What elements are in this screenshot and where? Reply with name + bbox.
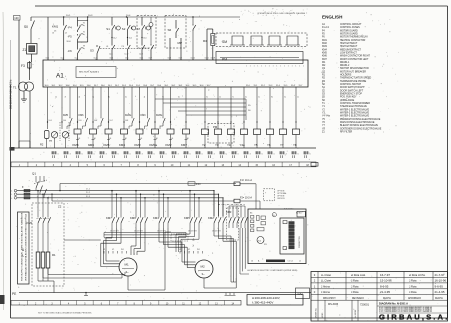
svg-text:A1: A1 — [56, 73, 64, 80]
svg-text:30-0: 30-0 — [101, 85, 105, 87]
svg-text:KM3o: KM3o — [156, 114, 163, 117]
svg-text:1: 1 — [303, 65, 304, 67]
svg-text:3: 3 — [142, 153, 143, 155]
svg-text:30-7: 30-7 — [150, 85, 154, 87]
svg-text:J.Alsina: J.Alsina — [321, 291, 330, 294]
A1 inner label box — [76, 67, 116, 78]
contactor coil KM6 — [90, 129, 97, 134]
svg-text:0: 0 — [202, 153, 203, 155]
svg-text:15-10-96: 15-10-96 — [380, 279, 392, 283]
svg-text:1: 1 — [284, 65, 285, 67]
svg-text:10-8: 10-8 — [125, 120, 128, 122]
svg-text:CONTROL FUSES: CONTROL FUSES — [340, 27, 360, 29]
svg-text:LOCATION OF ELECTRIC COMPONENT: LOCATION OF ELECTRIC COMPONENTS (UPPER V… — [247, 269, 298, 272]
svg-text:KM5: KM5 — [63, 114, 69, 117]
svg-text:W1: W1 — [197, 249, 200, 251]
svg-text:KM2: KM2 — [322, 43, 327, 45]
svg-text:L1: L1 — [299, 261, 301, 263]
svg-text:30-4: 30-4 — [129, 85, 133, 87]
wire drop to A1 pin 1 — [47, 17, 49, 60]
return bus bottom of control section — [11, 147, 316, 149]
motor M2 wiring bundle from KM2 — [213, 228, 215, 236]
svg-text:PE: PE — [12, 292, 16, 296]
wire vertical supply left — [18, 20, 20, 82]
svg-text:3: 3 — [214, 153, 215, 155]
svg-text:30-5: 30-5 — [80, 85, 84, 87]
svg-text:S2: S2 — [122, 27, 126, 31]
svg-text:30-0: 30-0 — [157, 85, 161, 87]
svg-text:1: 1 — [254, 65, 255, 67]
svg-text:1: 1 — [299, 65, 300, 67]
drain motor leads — [54, 138, 56, 148]
svg-text:10-3: 10-3 — [94, 58, 97, 60]
supply note box vertical — [18, 212, 30, 284]
terminal mark bottom left — [10, 147, 15, 151]
svg-text:31-5: 31-5 — [284, 85, 288, 87]
svg-text:10-7: 10-7 — [110, 120, 113, 122]
junction dots supply taps — [37, 190, 39, 192]
svg-text:STEAM ELECTROVALVE: STEAM ELECTROVALVE — [340, 105, 367, 108]
svg-text:30-6: 30-6 — [87, 85, 91, 87]
cam pulse 3 — [269, 36, 280, 45]
wire R3 top — [207, 28, 213, 30]
svg-text:Q1: Q1 — [32, 172, 36, 176]
svg-text:J.Alsina: J.Alsina — [321, 285, 330, 288]
svg-text:KM6: KM6 — [88, 143, 94, 147]
svg-text:W1: W1 — [121, 249, 124, 251]
motor M1 — [119, 258, 137, 276]
svg-text:10-4: 10-4 — [63, 120, 66, 122]
svg-text:31-2: 31-2 — [261, 85, 265, 87]
contactor coil KM4 — [121, 129, 128, 134]
wire transformer secondary down — [23, 91, 25, 99]
motor M2 — [195, 260, 213, 278]
supply lines L1 L2 L3 — [17, 190, 214, 192]
wire control bus top — [31, 16, 240, 18]
svg-text:1: 1 — [295, 65, 296, 67]
svg-text:LL.Clotet: LL.Clotet — [321, 280, 331, 283]
svg-text:10-1: 10-1 — [61, 58, 64, 60]
svg-text:14: 14 — [65, 32, 67, 34]
contactor coil KM5 — [105, 129, 112, 134]
svg-text:SWITCH DISCONNECTOR: SWITCH DISCONNECTOR — [340, 68, 369, 70]
svg-text:S0: S0 — [24, 25, 28, 29]
svg-text:FECHA: FECHA — [383, 297, 391, 300]
svg-text:10-4: 10-4 — [110, 58, 113, 60]
title block row lines — [311, 276, 448, 278]
svg-text:30-0: 30-0 — [45, 85, 49, 87]
sheet ruler band bottom — [11, 301, 241, 306]
svg-text:16-7-97: 16-7-97 — [380, 273, 390, 277]
svg-text:R3: R3 — [203, 39, 207, 43]
svg-text:10-8: 10-8 — [168, 58, 171, 60]
svg-text:HIGH EXTRACT: HIGH EXTRACT — [340, 45, 358, 48]
svg-text:M2: M2 — [201, 265, 205, 269]
svg-text:10-5: 10-5 — [79, 120, 82, 122]
svg-text:1: 1 — [273, 65, 274, 67]
pcb corner box outside — [297, 211, 305, 217]
svg-text:FECHA: FECHA — [435, 297, 443, 300]
svg-text:1: 1 — [246, 65, 247, 67]
svg-text:J.Rota: J.Rota — [351, 290, 359, 294]
option dashed box small — [264, 189, 275, 201]
svg-text:Y3: Y3 — [215, 143, 219, 147]
svg-text:OPCION: OPCION — [277, 198, 285, 200]
svg-text:1: 1 — [265, 65, 266, 67]
svg-text:CONTROL TRANSFORMER: CONTROL TRANSFORMER — [340, 102, 370, 105]
valve coil Y5 — [256, 87, 258, 129]
wire R1 bundle to motor M1 — [43, 277, 122, 279]
svg-text:APROBADO: APROBADO — [408, 297, 421, 300]
junction dots row mid — [47, 121, 48, 122]
svg-text:3: 3 — [286, 153, 287, 155]
svg-text:95: 95 — [83, 32, 85, 34]
svg-text:30-7: 30-7 — [94, 85, 98, 87]
svg-text:J.Rota: J.Rota — [409, 284, 417, 288]
valve coil Y7 — [282, 87, 284, 129]
svg-text:0: 0 — [94, 153, 95, 155]
svg-text:S3: S3 — [90, 49, 94, 53]
title block outer — [311, 272, 448, 322]
motor M1 wiring bundle right — [135, 228, 137, 246]
valve coil Y2 — [204, 87, 206, 129]
svg-text:10-6: 10-6 — [140, 58, 143, 60]
svg-text:3: 3 — [178, 153, 179, 155]
svg-text:SOFTENER DOSING ELECTROVALVE: SOFTENER DOSING ELECTROVALVE — [340, 127, 382, 130]
svg-text:0: 0 — [274, 153, 275, 155]
cam pulse 4 — [287, 36, 298, 45]
svg-text:120: 120 — [14, 16, 19, 20]
svg-text:1: 1 — [257, 65, 258, 67]
svg-text:ENGLISH: ENGLISH — [322, 15, 343, 20]
svg-text:PREWASH DOSING ELECTROVALVE: PREWASH DOSING ELECTROVALVE — [340, 118, 381, 121]
unbalance switch S6 box — [165, 16, 186, 49]
motor M2 wiring bundle from KM4 — [158, 228, 160, 242]
coil terminal ticks — [76, 139, 79, 141]
svg-text:DIAGRAM No. N-3551 A: DIAGRAM No. N-3551 A — [379, 302, 408, 306]
svg-text:HEATING CONTACTOR: HEATING CONTACTOR — [340, 39, 366, 42]
svg-text:1: 1 — [261, 65, 262, 67]
contactor coil KM8 — [74, 129, 81, 134]
svg-text:Δ 200-208-220-240V: Δ 200-208-220-240V — [252, 296, 280, 300]
svg-text:SEC SCH. N-3046 b: SEC SCH. N-3046 b — [79, 72, 100, 74]
svg-text:12-12: 12-12 — [125, 54, 129, 56]
svg-text:S1: S1 — [106, 27, 110, 31]
svg-text:EMERGENCY STOP: EMERGENCY STOP — [340, 94, 362, 96]
svg-text:MODIF. No: MODIF. No — [316, 307, 318, 318]
svg-text:21-4-95: 21-4-95 — [380, 290, 390, 294]
valve coil Y4 — [230, 87, 232, 129]
bundle horizontals under contactors — [104, 232, 186, 234]
svg-text:OPTIONAL: OPTIONAL — [277, 192, 287, 195]
svg-text:M1: M1 — [125, 263, 129, 267]
valve coil Y4a — [243, 87, 245, 129]
svg-text:KM2: KM2 — [166, 143, 172, 147]
svg-text:MOTOR AUT. BREAKER: MOTOR AUT. BREAKER — [340, 70, 366, 73]
svg-text:TEMPERATURE PROBE: TEMPERATURE PROBE — [340, 80, 367, 83]
svg-text:1: 1 — [280, 65, 281, 67]
svg-text:Y8: Y8 — [293, 143, 297, 147]
svg-text:KM3: KM3 — [141, 114, 147, 117]
svg-text:MOTOR THERMIC RELAY: MOTOR THERMIC RELAY — [340, 36, 368, 39]
node bus junction 1 — [63, 16, 64, 17]
node S1 junction — [111, 37, 112, 38]
svg-text:J.Rota: J.Rota — [409, 290, 417, 294]
svg-text:10-3: 10-3 — [49, 120, 52, 122]
wire S6 leads to A1 — [169, 38, 171, 60]
svg-text:1: 1 — [269, 65, 270, 67]
scan blob bottom left — [0, 295, 5, 304]
drain motor M3 — [51, 132, 57, 138]
svg-text:30-5: 30-5 — [136, 85, 140, 87]
svg-text:31-3: 31-3 — [269, 85, 273, 87]
svg-text:6: 6 — [262, 153, 263, 155]
svg-text:30-6: 30-6 — [143, 85, 147, 87]
svg-text:95: 95 — [83, 23, 85, 25]
border frame — [35, 5, 448, 7]
svg-text:NOT TO BE USED IN ACCORDANCE N: NOT TO BE USED IN ACCORDANCE NORMAL PERS… — [38, 312, 92, 315]
svg-text:10-0: 10-0 — [46, 58, 49, 60]
svg-text:KM6: KM6 — [130, 216, 136, 220]
valve coil Y3 — [217, 87, 219, 129]
svg-text:10-6: 10-6 — [143, 38, 146, 40]
option dash-dot feed — [218, 204, 245, 206]
svg-text:30-1: 30-1 — [164, 85, 168, 87]
svg-text:KM1: KM1 — [322, 40, 327, 42]
node bus junction 3 — [126, 16, 127, 17]
svg-text:WATER-2 ELECTROVALVE: WATER-2 ELECTROVALVE — [340, 111, 369, 114]
left risers to bus — [18, 141, 20, 148]
svg-text:KM4: KM4 — [153, 216, 159, 220]
svg-text:3: 3 — [106, 153, 107, 155]
svg-text:WASH CONTACTOR RIGHT: WASH CONTACTOR RIGHT — [340, 55, 371, 58]
svg-text:HIGH EXTRACT: HIGH EXTRACT — [340, 42, 358, 45]
wire F bypass — [87, 17, 89, 42]
svg-text:MOTOR GUARD: MOTOR GUARD — [340, 29, 358, 32]
PE tick marks right — [225, 293, 227, 295]
svg-text:KM3: KM3 — [135, 143, 141, 147]
svg-text:POS. RUN KEY: POS. RUN KEY — [340, 97, 357, 99]
svg-text:KM1: KM1 — [52, 25, 59, 29]
svg-text:Y4: Y4 — [227, 143, 231, 147]
cam pulse 2 — [251, 36, 262, 45]
wire tag 120 top-left — [14, 16, 21, 21]
svg-text:30-4: 30-4 — [73, 85, 77, 87]
svg-text:31-1: 31-1 — [254, 85, 258, 87]
svg-text:CONTROL CIRCUIT: CONTROL CIRCUIT — [340, 24, 362, 26]
svg-text:GIRBAU,S.A.: GIRBAU,S.A. — [379, 313, 448, 322]
svg-text:L: L — [11, 191, 12, 193]
svg-text:10-11: 10-11 — [205, 58, 209, 60]
svg-text:KM3o: KM3o — [125, 114, 132, 117]
svg-text:8-6-95: 8-6-95 — [380, 284, 389, 288]
svg-text:10: 10 — [251, 261, 253, 263]
node S2 junction — [127, 37, 128, 38]
svg-text:3~: 3~ — [126, 270, 130, 274]
svg-text:J.Rota: J.Rota — [409, 279, 417, 283]
svg-text:L: L — [11, 194, 12, 196]
svg-text:6: 6 — [298, 153, 299, 155]
svg-text:WATER-3 ELECTROVALVE: WATER-3 ELECTROVALVE — [340, 115, 369, 118]
svg-text:HOLDERS: HOLDERS — [340, 75, 352, 77]
svg-text:SM: SM — [222, 40, 227, 44]
svg-text:el Rota Licsl.: el Rota Licsl. — [351, 273, 366, 277]
svg-text:10-2: 10-2 — [75, 58, 78, 60]
svg-text:0: 0 — [166, 153, 167, 155]
svg-text:16-10-96: 16-10-96 — [435, 279, 447, 283]
input fuses — [24, 189, 30, 191]
svg-text:R2: R2 — [40, 142, 44, 146]
svg-text:31-7: 31-7 — [299, 85, 303, 87]
svg-text:F1= 10-1-A: F1= 10-1-A — [240, 179, 252, 182]
svg-text:1: 1 — [288, 65, 289, 67]
svg-text:30-2: 30-2 — [171, 85, 175, 87]
svg-text:-F6: -F6 — [68, 49, 73, 53]
svg-text:Y7: Y7 — [280, 143, 284, 147]
svg-text:30-7: 30-7 — [207, 85, 211, 87]
valve coil bottoms to bus — [204, 135, 206, 149]
wire drops from A1 to coil row — [47, 87, 49, 129]
svg-text:KM7: KM7 — [322, 59, 327, 61]
pcb terminal strip box — [280, 218, 304, 254]
svg-text:MEDIUM EXTRACT: MEDIUM EXTRACT — [340, 48, 362, 51]
svg-text:KM5: KM5 — [184, 216, 190, 220]
svg-text:10-6: 10-6 — [94, 120, 97, 122]
svg-text:31-0: 31-0 — [246, 85, 250, 87]
svg-text:L: L — [11, 198, 12, 200]
svg-text:KM2: KM2 — [208, 216, 214, 220]
motor M2 to PE wires — [203, 279, 205, 289]
title block column lines upper — [317, 272, 319, 301]
svg-text:KM6: KM6 — [79, 114, 85, 117]
second row contacts — [111, 31, 113, 44]
dashed option wires box — [227, 208, 239, 240]
contactor coil KM2 — [167, 129, 174, 134]
svg-text:U1: U1 — [179, 249, 181, 251]
wire F2 down to pcb — [259, 201, 261, 209]
svg-text:RFI FILTER: RFI FILTER — [340, 131, 353, 133]
svg-text:30-3: 30-3 — [122, 85, 126, 87]
terminal ticks motor M1 — [103, 251, 105, 254]
svg-text:C/V: C/V — [298, 292, 303, 296]
interlock dashed box S5 — [137, 16, 156, 49]
svg-text:F3: F3 — [21, 64, 25, 68]
svg-text:2T1 4T2 6T3: 2T1 4T2 6T3 — [212, 231, 221, 233]
drain motor M4 — [62, 132, 68, 138]
svg-text:Y5: Y5 — [254, 143, 258, 147]
svg-text:30-1: 30-1 — [108, 85, 112, 87]
title block bottom columns — [317, 300, 319, 321]
svg-text:Y4-Y4a: Y4-Y4a — [322, 116, 330, 118]
motor M1 wiring bundle left — [111, 228, 113, 238]
svg-text:OPERACION DE FREG CASO WASHERS: OPERACION DE FREG CASO WASHERS DIAGRAM — [257, 12, 305, 15]
svg-text:KM4: KM4 — [119, 143, 125, 147]
aux contacts row — [69, 87, 71, 117]
svg-text:C1 C2: C1 C2 — [288, 261, 293, 263]
svg-text:10-3: 10-3 — [88, 15, 93, 17]
svg-text:13: 13 — [52, 32, 54, 34]
svg-text:F0=: F0= — [196, 182, 201, 186]
svg-text:UNBALANCE: UNBALANCE — [340, 99, 355, 102]
svg-text:2T1 4T2 6T3: 2T1 4T2 6T3 — [157, 231, 166, 233]
svg-text:F1-2-3: F1-2-3 — [322, 27, 330, 29]
fuse feed taps — [59, 184, 61, 191]
svg-text:J.Rota: J.Rota — [351, 279, 359, 283]
svg-text:30-4: 30-4 — [186, 85, 190, 87]
svg-text:0: 0 — [130, 153, 131, 155]
node S7 junction — [141, 37, 142, 38]
svg-text:30-3: 30-3 — [178, 85, 182, 87]
svg-text:T1: T1 — [13, 86, 17, 90]
dashed drop lines — [59, 122, 61, 141]
voltage rating box — [247, 295, 303, 306]
svg-text:KM5: KM5 — [104, 143, 110, 147]
interlock circle top right — [149, 23, 153, 27]
svg-text:12-13: 12-13 — [139, 54, 143, 56]
svg-text:9-6-95: 9-6-95 — [435, 284, 444, 288]
svg-text:6: 6 — [82, 153, 83, 155]
svg-text:LOW EXTRACT: LOW EXTRACT — [340, 51, 357, 54]
unbalance contact S6 — [175, 20, 177, 27]
svg-text:3~: 3~ — [202, 272, 206, 276]
pcb relay circle — [257, 237, 264, 244]
controller A1 box — [43, 60, 308, 87]
svg-text:2T1 4T2 6T3: 2T1 4T2 6T3 — [188, 231, 197, 233]
supply line turns into KM2 — [213, 191, 215, 216]
svg-text:10-10: 10-10 — [191, 58, 195, 60]
wire Z2 to motor bundle — [64, 239, 101, 241]
svg-text:1: 1 — [292, 65, 293, 67]
svg-text:PM: PM — [222, 58, 227, 62]
svg-text:31-6: 31-6 — [291, 85, 295, 87]
svg-text:0: 0 — [58, 153, 59, 155]
svg-text:3: 3 — [70, 153, 71, 155]
contactor coil KM3 — [136, 129, 143, 134]
svg-text:31-4: 31-4 — [276, 85, 280, 87]
valve dashed box PM — [208, 124, 234, 144]
svg-text:21-7-97: 21-7-97 — [435, 273, 445, 277]
svg-text:6: 6 — [154, 153, 155, 155]
terminal box right of band — [311, 163, 318, 167]
svg-text:BLEACH DOSING ELECTROVALVE: BLEACH DOSING ELECTROVALVE — [340, 124, 378, 127]
svg-text:No SERIE: No SERIE — [355, 309, 357, 318]
drop wire x193 — [192, 17, 194, 24]
svg-text:VER MANUAL DE INSTALACION CONE: VER MANUAL DE INSTALACION CONEXION DE RE… — [25, 214, 28, 281]
M2 right bundle verticals — [239, 228, 241, 274]
contactor coil KM7 — [183, 129, 190, 134]
scan left edge artifact — [2, 12, 5, 310]
svg-text:KM7: KM7 — [106, 216, 112, 220]
svg-text:V1: V1 — [112, 249, 114, 251]
svg-text:Y2: Y2 — [202, 143, 206, 147]
svg-text:R1: R1 — [52, 253, 56, 257]
svg-text:12-11: 12-11 — [109, 54, 113, 56]
svg-text:Z2: Z2 — [58, 205, 62, 209]
svg-text:F2= 10-2-A: F2= 10-2-A — [240, 196, 252, 199]
sheet box left of title — [296, 288, 310, 299]
svg-text:MOTOR GUARD: MOTOR GUARD — [340, 32, 358, 35]
svg-text:CONNECTOR: CONNECTOR — [299, 236, 301, 248]
wire R1 to PE — [38, 280, 54, 282]
svg-text:Z1: Z1 — [23, 48, 27, 52]
svg-text:DOOR SWITCH RIGHT: DOOR SWITCH RIGHT — [340, 87, 365, 89]
svg-text:30-5: 30-5 — [193, 85, 197, 87]
svg-text:10-7: 10-7 — [149, 58, 152, 60]
svg-text:PM: PM — [213, 125, 218, 129]
svg-text:⊙: ⊙ — [273, 214, 275, 217]
input terminals L1 L2 L3 — [14, 189, 17, 192]
svg-text:0: 0 — [310, 153, 311, 155]
